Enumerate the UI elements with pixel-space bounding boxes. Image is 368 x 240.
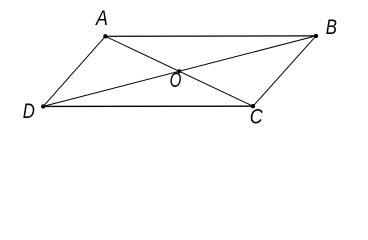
side DC [43, 105, 253, 107]
vertex dot D [41, 104, 45, 108]
diagonal AC [105, 36, 253, 106]
vertex dot A [103, 34, 107, 38]
side AD [43, 36, 105, 106]
svg-text:C: C [250, 105, 264, 127]
svg-text:O: O [170, 67, 182, 91]
svg-text:A: A [95, 7, 108, 31]
svg-text:D: D [23, 100, 35, 123]
vertex dot B [314, 34, 318, 38]
diagonal BD [43, 36, 316, 107]
side BC [253, 36, 316, 106]
side AB [105, 35, 316, 37]
intersection dot O [177, 69, 181, 73]
svg-text:B: B [326, 16, 337, 39]
vertex dot C [251, 104, 255, 108]
